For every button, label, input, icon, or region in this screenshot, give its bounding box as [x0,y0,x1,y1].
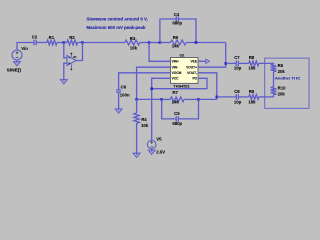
ground at R4 [133,153,140,158]
svg-text:VOUT+: VOUT+ [186,65,197,69]
wire C5 loop right [179,99,199,119]
svg-text:R5: R5 [278,63,284,68]
wire R4 to ground [136,123,138,153]
svg-text:20k: 20k [278,92,286,97]
wire R2 to node B [78,42,83,44]
svg-text:PD: PD [192,77,197,81]
svg-text:14k: 14k [172,99,180,104]
wire C5 loop left [162,99,176,119]
svg-text:680p: 680p [172,121,182,126]
svg-text:10k: 10k [130,45,138,50]
wire VIN- pin to rail [137,67,171,99]
svg-text:U2: U2 [180,54,185,58]
wire VOCM pin to C6 [119,73,171,90]
wire rail F to G [137,98,162,100]
svg-text:R6: R6 [173,35,179,40]
svg-text:C4: C4 [174,12,180,17]
annotation box Another TI IC [265,58,309,108]
wire C2 to R1 [37,42,47,44]
svg-text:Another TI IC: Another TI IC [275,75,300,80]
wire VCC pin to 2.5V net [152,78,171,140]
junction node B [81,41,84,44]
wire C7 to R8 [239,62,249,64]
wire node D to R6 [160,42,171,44]
wire node A to R2 [64,42,67,44]
wire rail H to I [199,98,217,100]
wire noninverting input to ground [64,63,67,79]
svg-text:16k: 16k [248,99,256,104]
resistor R2 [67,40,78,45]
svg-text:16k: 16k [248,65,256,70]
wire op-amp output up to node B [76,43,82,61]
svg-text:VOUT-: VOUT- [187,71,197,75]
wire VEE pin stub [198,60,206,62]
wire R6 to feedback corner [186,42,226,44]
svg-text:VOCM: VOCM [172,71,182,75]
svg-text:680p: 680p [172,21,182,26]
svg-text:VIN-: VIN- [172,65,179,69]
resistor R1 [47,40,57,45]
resistor R7 [170,97,184,102]
wire V5 bottom stub [151,149,153,150]
svg-text:VCC: VCC [172,77,180,81]
junction rail node F [135,98,138,101]
wire Vin top stub [17,43,34,51]
wire R8 to load box [259,62,274,65]
svg-text:C7: C7 [234,55,240,60]
capacitor C4 [176,16,178,21]
wire C8 to R9 [239,96,249,98]
voltage source V5 [147,140,156,149]
svg-text:C5: C5 [174,111,180,116]
voltage source Vin [12,50,22,60]
wire C6 to ground [118,92,120,109]
svg-text:VEE: VEE [190,60,197,64]
wire feedback drop [225,43,227,64]
svg-text:2.5V: 2.5V [156,149,165,154]
wire C4 loop left [160,19,176,43]
junction rail node G [160,98,163,101]
wire C4 loop right [179,19,197,43]
svg-text:R10: R10 [278,86,286,91]
op-amp U2 THS4521 [171,58,199,84]
wire VOUT- pin to rail [198,73,217,100]
svg-text:V5: V5 [156,136,162,141]
svg-text:R3: R3 [130,36,136,41]
capacitor C8 [236,94,238,99]
svg-text:20k: 20k [278,69,286,74]
ground at op-amp input [60,79,67,84]
junction node C [148,41,151,44]
junction VOUT+ node [224,62,227,65]
wire R3 to node C [140,42,149,44]
svg-text:C8: C8 [234,89,240,94]
junction rail node I [216,96,219,99]
svg-text:R7: R7 [172,90,178,95]
ground at V5 [148,150,155,155]
capacitor C5 [176,116,178,121]
resistor R6 [171,40,187,45]
junction PD to 2.5V net [150,87,153,90]
wire branch to C7 [226,62,236,64]
junction node A [63,41,66,44]
junction node D [159,41,162,44]
svg-text:10p: 10p [234,65,242,70]
resistor R9 [249,95,259,100]
svg-text:C6: C6 [121,84,127,89]
svg-text:THS4521: THS4521 [173,83,190,88]
wire node G to R7 [162,98,171,100]
svg-text:Vin: Vin [21,46,28,51]
ground at Vin [14,61,21,66]
wire R5 to R10 [273,72,275,87]
svg-text:VIN+: VIN+ [172,60,179,64]
svg-text:SINE(): SINE() [7,68,22,74]
wire node C to node D [149,42,160,44]
svg-text:R8: R8 [249,55,255,60]
net flag VEE port [206,59,210,63]
ground at C6 [115,108,122,113]
wire R9 to load box [259,95,274,97]
svg-text:U1: U1 [73,55,77,59]
wire node B to R3 [83,42,125,44]
svg-text:Maximum 500 mV peak-peak: Maximum 500 mV peak-peak [87,25,146,30]
svg-text:10k: 10k [141,123,149,128]
resistor R10 [271,87,277,95]
capacitor C6 [116,90,121,92]
resistor R4 [134,113,139,123]
wire rail I to C8 [217,96,236,98]
svg-text:C2: C2 [32,35,38,40]
wire PD loop [152,78,207,88]
svg-text:10p: 10p [234,99,242,104]
svg-text:R4: R4 [141,117,147,122]
resistor R3 [125,40,140,45]
wire node F to R4 [136,99,138,113]
wire node C to VIN+ pin [149,43,170,62]
capacitor C2 [34,40,36,45]
wire VOUT+ pin to branch [198,63,226,67]
svg-text:Sinewave centred around 0 V,: Sinewave centred around 0 V, [87,16,148,21]
svg-text:14k: 14k [172,43,180,48]
resistor R8 [249,61,259,66]
resistor R5 [271,64,277,71]
op-amp U1 [67,53,76,71]
svg-text:R1: R1 [49,35,55,40]
wire node A down to inverting input [64,43,67,58]
svg-text:R9: R9 [249,89,255,94]
junction rail node H [197,98,200,101]
svg-text:100n: 100n [120,93,130,98]
wire Vin bottom stub [16,60,18,62]
junction node E [195,41,198,44]
wire R1 to node A [57,42,64,44]
wire R7 to node H [184,98,198,100]
svg-text:R2: R2 [69,35,75,40]
capacitor C7 [236,61,238,66]
